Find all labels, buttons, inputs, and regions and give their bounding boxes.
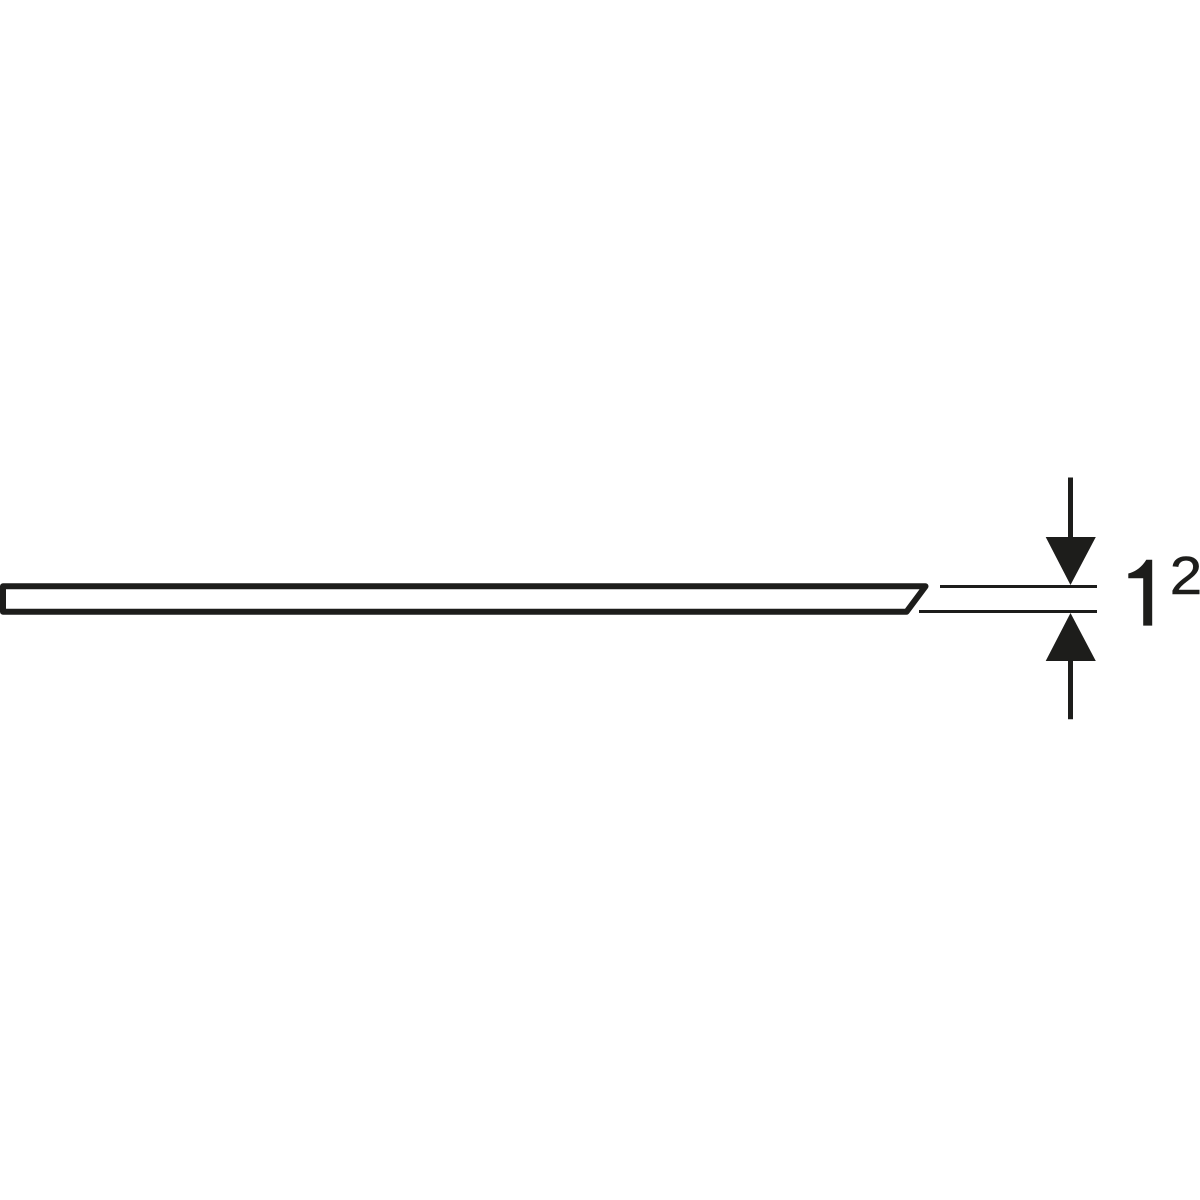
svg-text:2: 2 [1170, 545, 1200, 606]
